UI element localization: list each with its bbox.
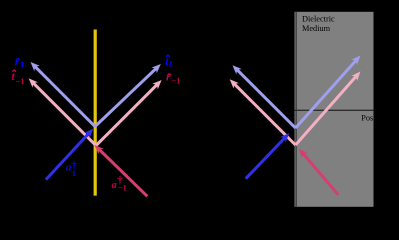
svg-text:1: 1 bbox=[20, 60, 24, 69]
interface edge line bbox=[295, 12, 297, 207]
transmitted ray t1 (left panel) bbox=[95, 64, 161, 127]
position axis line bbox=[295, 109, 374, 111]
transmitted ray inside medium (mode 1) bbox=[296, 56, 361, 129]
svg-text:r: r bbox=[15, 56, 20, 68]
label r-hat 1 bbox=[15, 56, 25, 69]
svg-text:−1: −1 bbox=[118, 184, 127, 193]
svg-text:−1: −1 bbox=[171, 76, 180, 85]
label t-hat -1 bbox=[12, 70, 25, 86]
svg-text:1: 1 bbox=[169, 59, 173, 68]
reflected ray (right panel, mode 1) bbox=[233, 65, 296, 128]
svg-text:a: a bbox=[112, 180, 117, 191]
mirror (yellow line) bbox=[94, 30, 97, 196]
incident ray a1 (left panel) bbox=[46, 129, 93, 180]
incident ray inside medium (mode -1) bbox=[299, 149, 339, 195]
transmitted ray t-1 (left panel) bbox=[29, 78, 96, 145]
reflected ray r1 (left panel) bbox=[31, 62, 96, 127]
svg-text:r: r bbox=[166, 71, 171, 83]
svg-text:−1: −1 bbox=[16, 77, 25, 86]
incident ray a-1 (left panel) bbox=[95, 145, 148, 196]
reflected ray inside medium (mode -1) bbox=[296, 72, 361, 146]
svg-text:Dielectric: Dielectric bbox=[302, 15, 335, 24]
label a-1 dagger bbox=[112, 174, 127, 192]
transmitted ray (right panel, mode -1) bbox=[230, 79, 296, 145]
label a1 dagger bbox=[66, 159, 77, 178]
reflected ray r-1 (left panel) bbox=[96, 80, 162, 146]
label r-hat -1 bbox=[166, 71, 180, 85]
svg-text:1: 1 bbox=[72, 169, 76, 178]
svg-text:Medium: Medium bbox=[302, 24, 331, 33]
label t-hat 1 bbox=[165, 55, 172, 68]
svg-text:Position: Position bbox=[361, 114, 389, 123]
incident ray (right panel, mode 1) bbox=[246, 133, 290, 179]
dielectric medium region bbox=[295, 12, 374, 207]
